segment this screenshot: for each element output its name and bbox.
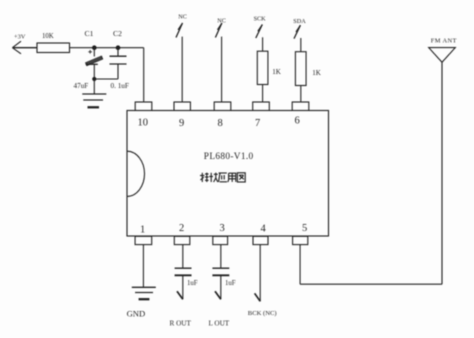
svg-text:47uF: 47uF — [74, 82, 89, 90]
svg-text:R OUT: R OUT — [170, 319, 192, 327]
svg-text:SDA: SDA — [293, 18, 306, 25]
pin 4 pad — [253, 236, 268, 244]
svg-text:9: 9 — [179, 118, 184, 129]
char ying — [219, 172, 227, 174]
svg-text:NC: NC — [178, 14, 187, 21]
char kuai — [210, 173, 212, 182]
char tu — [237, 173, 245, 182]
svg-text:GND: GND — [127, 308, 146, 318]
wire Vcc rail down to pin 10 — [143, 48, 145, 102]
svg-text:NC: NC — [217, 17, 226, 24]
wire pin 5 to antenna — [300, 245, 442, 285]
junction node at C2 — [116, 45, 121, 50]
R OUT arrow — [177, 276, 183, 300]
svg-text:6: 6 — [295, 116, 300, 127]
SCK net arrow — [256, 25, 263, 52]
IC notch — [127, 151, 145, 196]
svg-text:1uF: 1uF — [187, 280, 198, 287]
capacitor 1uF (R OUT) — [175, 245, 192, 276]
svg-text:SCK: SCK — [254, 16, 267, 23]
svg-text:7: 7 — [255, 118, 260, 129]
pin 3 pad — [213, 236, 228, 244]
pin 9 pad — [174, 102, 190, 111]
svg-text:4: 4 — [261, 224, 267, 235]
char mo — [201, 173, 203, 182]
NC arrow pin 9 — [176, 23, 183, 102]
svg-text:PL680-V1.0: PL680-V1.0 — [204, 152, 254, 162]
resistor 10K (series from +3V) — [37, 43, 70, 53]
IC caption (module application diagram, CJK glyph approximations) — [200, 173, 245, 182]
junction node below C1 — [92, 77, 96, 81]
pin 6 pad — [292, 102, 309, 111]
capacitor C1 47uF electrolytic — [86, 48, 103, 79]
ground GND pin 1 — [132, 245, 156, 300]
svg-text:BCK (NC): BCK (NC) — [248, 310, 277, 317]
svg-text:L OUT: L OUT — [209, 319, 230, 327]
svg-text:1K: 1K — [272, 68, 281, 76]
char yong — [228, 173, 236, 182]
svg-text:3: 3 — [220, 223, 225, 234]
svg-text:0. 1uF: 0. 1uF — [111, 82, 129, 90]
svg-text:C2: C2 — [113, 29, 122, 38]
antenna FM ANT — [429, 48, 456, 63]
resistor 1K (SCK pull-up) — [257, 51, 268, 84]
ground (filter caps) — [82, 79, 106, 107]
junction node at C1 — [92, 45, 97, 50]
wire C2 bottom to C1 bottom node — [94, 78, 118, 80]
pin 5 pad — [293, 236, 308, 244]
pin 2 pad — [174, 236, 190, 244]
svg-text:1uF: 1uF — [225, 280, 236, 287]
capacitor C2 0.1uF — [110, 48, 127, 79]
svg-text:+3V: +3V — [14, 34, 26, 41]
wire resistor to pin 6 — [300, 86, 302, 103]
svg-text:C1: C1 — [85, 29, 94, 38]
pin 1 pad — [135, 236, 152, 244]
SDA net arrow — [294, 25, 301, 52]
pin 10 pad — [135, 102, 152, 111]
svg-text:FM ANT: FM ANT — [431, 37, 457, 44]
svg-text:2: 2 — [179, 223, 184, 234]
resistor 1K (SDA pull-up) — [295, 52, 306, 86]
svg-text:1K: 1K — [312, 69, 321, 77]
IC U1 PL680-V1.0 body — [127, 111, 329, 237]
wire antenna down — [441, 62, 443, 284]
svg-text:10: 10 — [138, 118, 149, 129]
wire resistor to pin 7 — [262, 85, 264, 103]
wire resistor to Vcc node — [70, 47, 144, 49]
pin 7 pad — [253, 102, 270, 111]
capacitor 1uF (L OUT) — [212, 245, 229, 276]
svg-text:8: 8 — [218, 118, 223, 129]
pin 8 pad — [214, 102, 231, 111]
svg-text:5: 5 — [302, 223, 307, 234]
L OUT arrow — [215, 276, 221, 300]
svg-text:1: 1 — [140, 225, 145, 236]
power +3V arrow — [12, 41, 37, 54]
svg-text:10K: 10K — [42, 33, 54, 40]
BCK (NC) arrow pin 4 — [255, 245, 261, 302]
NC arrow pin 8 — [215, 23, 222, 102]
